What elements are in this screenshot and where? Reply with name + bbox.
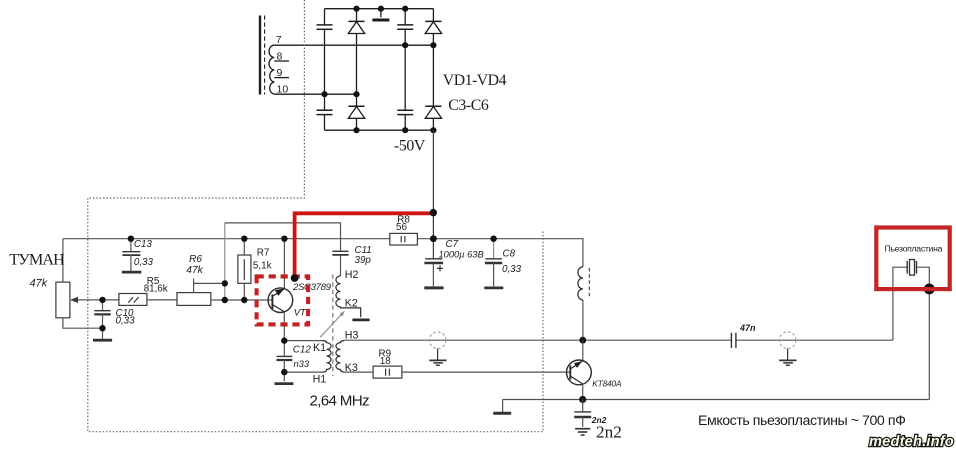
svg-text:H3: H3 xyxy=(345,329,359,341)
node collector line xyxy=(579,396,586,403)
svg-text:2SC3789: 2SC3789 xyxy=(292,282,332,293)
node collector tap dot xyxy=(291,274,299,282)
winding K1-H1 xyxy=(313,341,332,386)
wire base feed vertical xyxy=(224,223,226,300)
ground tap of multiplier xyxy=(372,9,389,20)
winding H2-K2 xyxy=(336,269,370,320)
svg-text:Пьезопластина: Пьезопластина xyxy=(885,244,943,254)
red wire collector tap xyxy=(295,213,434,278)
wire tap7 to bridge xyxy=(274,44,433,46)
wire top bus of multiplier xyxy=(325,8,434,10)
node L1/H3/emitter xyxy=(579,337,586,344)
svg-text:H2: H2 xyxy=(345,269,359,281)
svg-text:K2: K2 xyxy=(345,297,358,309)
wire base line xyxy=(211,299,273,301)
svg-text:0,33: 0,33 xyxy=(116,316,136,327)
svg-text:2,64 MHz: 2,64 MHz xyxy=(310,392,369,409)
oscillator transformer core xyxy=(332,275,334,377)
capacitor C13 0,33 xyxy=(122,239,154,272)
svg-text:C8: C8 xyxy=(503,249,516,260)
diode VD4 column xyxy=(425,9,441,131)
svg-text:39p: 39p xyxy=(355,255,372,266)
shield ground 2 xyxy=(779,332,796,365)
svg-text:81,6k: 81,6k xyxy=(144,283,168,294)
svg-text:KT840A: KT840A xyxy=(592,379,622,389)
junction dots multiplier xyxy=(321,6,436,134)
node C12/H1 xyxy=(281,369,287,375)
piezo crystal element xyxy=(907,260,916,276)
svg-text:5,1k: 5,1k xyxy=(253,260,272,271)
svg-text:0,33: 0,33 xyxy=(502,264,522,275)
svg-text:R6: R6 xyxy=(189,254,202,265)
wire -50V feed from rectifier down to rail xyxy=(432,130,434,258)
capacitor 2n2 xyxy=(574,400,622,442)
svg-text:47k: 47k xyxy=(30,278,48,290)
capacitor C7 1000u 63V xyxy=(424,239,483,288)
resistor R8 56 xyxy=(390,215,418,245)
svg-text:7: 7 xyxy=(276,34,282,46)
capacitor C10 0,33 xyxy=(93,300,135,340)
svg-text:56: 56 xyxy=(396,222,407,233)
node piezo terminal xyxy=(924,284,935,295)
svg-text:H1: H1 xyxy=(313,373,327,385)
svg-text:K1: K1 xyxy=(313,342,326,354)
red highlight box piezo xyxy=(876,228,949,290)
red dashed case outline VT1 xyxy=(257,276,309,324)
svg-text:-50V: -50V xyxy=(394,138,426,155)
svg-text:VD1-VD4: VD1-VD4 xyxy=(443,72,507,89)
wire tap10 to bridge xyxy=(274,93,356,95)
svg-text:medteh.info: medteh.info xyxy=(869,434,954,450)
shield ground 1 xyxy=(429,332,446,365)
wire collector output line xyxy=(503,399,930,401)
transistor VT1 2SC3789 xyxy=(268,282,331,319)
svg-text:C3-C6: C3-C6 xyxy=(448,97,489,114)
wire L1 to node xyxy=(582,300,584,340)
capacitor C5 (third column) xyxy=(397,9,413,131)
svg-text:2n2: 2n2 xyxy=(596,422,622,441)
wire VT1 emitter up to rail xyxy=(283,239,285,289)
svg-text:R7: R7 xyxy=(257,247,270,258)
svg-text:8: 8 xyxy=(277,50,283,62)
transformer T1 mains winding with taps 7,8,9,10 xyxy=(260,16,289,96)
svg-text:ТУМАН: ТУМАН xyxy=(9,251,65,269)
potentiometer ТУМАН 47k xyxy=(9,239,102,329)
wire bottom bus of multiplier xyxy=(325,129,434,131)
potentiometer R6 47k xyxy=(177,254,225,306)
resistor R5 81,6k (trimmer) xyxy=(103,276,178,306)
wire wiper to node xyxy=(70,297,103,303)
wire R9 to VT2 base xyxy=(402,371,570,373)
svg-text:C12: C12 xyxy=(293,344,312,355)
node -50V red junction xyxy=(430,209,437,216)
transistor VT2 KT840A xyxy=(567,360,622,389)
svg-text:9: 9 xyxy=(277,67,283,79)
inductor L1 xyxy=(578,267,590,300)
resistor R9 18 xyxy=(344,349,402,379)
dotted enclosure border xyxy=(88,0,543,432)
svg-text:0,33: 0,33 xyxy=(134,257,154,268)
svg-text:1000µ 63В: 1000µ 63В xyxy=(439,250,484,260)
svg-text:Емкость пьезопластины ~ 700 пФ: Емкость пьезопластины ~ 700 пФ xyxy=(698,413,905,429)
node collector/C12/K1 xyxy=(281,337,287,343)
svg-text:C13: C13 xyxy=(134,239,153,250)
diode VD1 column xyxy=(348,9,364,131)
svg-text:C7: C7 xyxy=(446,239,459,250)
capacitor C11 39p xyxy=(332,245,371,276)
core adjustment arrow xyxy=(320,311,345,337)
capacitor C12 n33 xyxy=(275,341,312,384)
wire VT2 collector down xyxy=(582,384,584,400)
wire to piezo left terminal xyxy=(893,267,907,340)
wire piezo right terminal down xyxy=(917,267,930,399)
svg-text:10: 10 xyxy=(277,83,289,95)
wire collector to K1 xyxy=(284,340,322,342)
svg-text:n33: n33 xyxy=(294,359,310,369)
capacitor 47n xyxy=(731,323,756,348)
wire VT1 collector down xyxy=(283,312,285,341)
wire supply rail xyxy=(63,239,583,267)
wire C12 to H1 xyxy=(284,371,322,373)
capacitor C3 (left column) xyxy=(317,9,333,131)
junction dots rail and base xyxy=(99,235,497,331)
svg-text:47n: 47n xyxy=(739,323,756,333)
resistor R7 5,1k xyxy=(238,239,272,300)
wire node to VT2 emitter xyxy=(582,340,584,360)
capacitor C8 0,33 xyxy=(484,239,521,288)
svg-text:18: 18 xyxy=(380,356,391,367)
wire H3 output line xyxy=(344,339,893,341)
winding H3-K3 xyxy=(336,329,359,374)
ground left of collector line xyxy=(493,400,511,414)
svg-text:47k: 47k xyxy=(186,265,203,276)
wire bypass to C11 xyxy=(225,223,341,251)
